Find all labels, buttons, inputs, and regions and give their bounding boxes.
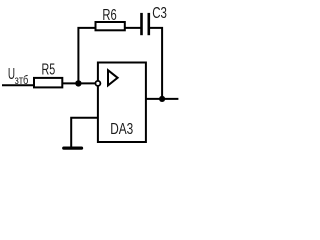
svg-text:R6: R6	[102, 5, 117, 24]
svg-text:R5: R5	[42, 60, 56, 78]
svg-text:DA3: DA3	[110, 119, 133, 137]
svg-text:зтб: зтб	[15, 74, 29, 87]
svg-text:C3: C3	[152, 3, 167, 21]
